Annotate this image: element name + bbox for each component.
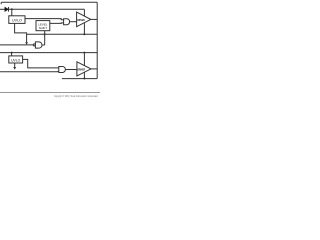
node VDD-UVLO2 junction [11,52,13,54]
svg-text:UVLO: UVLO [12,19,22,23]
wire HB to driver top [83,9,85,16]
node VDD-driver junction [83,52,85,54]
LEVEL SHIFT box [36,21,50,31]
wire right border bus [96,2,98,78]
wire HB top rail [1,2,97,4]
arrow into LI input wire [13,67,16,70]
wire HS rail [27,33,98,35]
wire UVLO2 output to gate U5 [23,59,59,68]
svg-text:UVLO: UVLO [11,58,21,62]
svg-text:Copyright © 2016, Texas Instru: Copyright © 2016, Texas Instruments Inco… [54,94,98,98]
svg-text:SHIFT: SHIFT [39,26,48,30]
node HS-levelshift junction [44,33,46,35]
wire HO output [91,18,97,20]
op-amp U4 driver (high side) [77,12,91,27]
wire VDD input (top, anode side) [0,8,5,10]
wire gate U3 output to driver [70,21,77,23]
gate U5 (low-side AND) [59,67,66,73]
svg-text:DRIVER: DRIVER [78,67,85,71]
wire driver bottom to VSS rail [83,72,85,78]
diode D1 [5,7,9,12]
wire LI input [0,70,59,73]
wire LO output [91,68,97,70]
wire level shift output to gate U3 [50,22,64,25]
wire HI input [0,44,33,46]
wire gate G1 output up to level shifter [42,31,45,45]
node VSS-driver junction [83,78,85,80]
op-amp U6 driver (low side) [77,62,91,76]
wire gate U5 output to driver [65,69,77,71]
footer rule [0,92,100,94]
wire UVLO1 output to gate U3 [25,19,64,20]
wire UVLO1 bottom jog [15,23,27,42]
node HS-driver junction [83,33,85,35]
arrow into HI input wire [25,42,28,45]
UVLO U1 (high side) [9,16,25,24]
node HB junction [11,8,13,10]
wire VDD to driver top [83,53,85,66]
wire driver bottom to HS rail [83,23,85,35]
gate G1 input stage [35,42,42,48]
gate U3 (high-side AND) [64,19,70,25]
wire HB rail after diode [9,8,85,10]
wire VSS rail [62,78,97,80]
wire UVLO2 bottom [14,63,16,67]
UVLO U2 (low side) [9,56,23,63]
svg-text:DRIVER: DRIVER [77,18,84,22]
wire VDD rail (low side) [0,52,97,54]
input buffer bubble (inverting input) [33,44,35,46]
wire to UVLO1 [11,9,13,16]
wire VDD to UVLO2 [11,53,13,56]
